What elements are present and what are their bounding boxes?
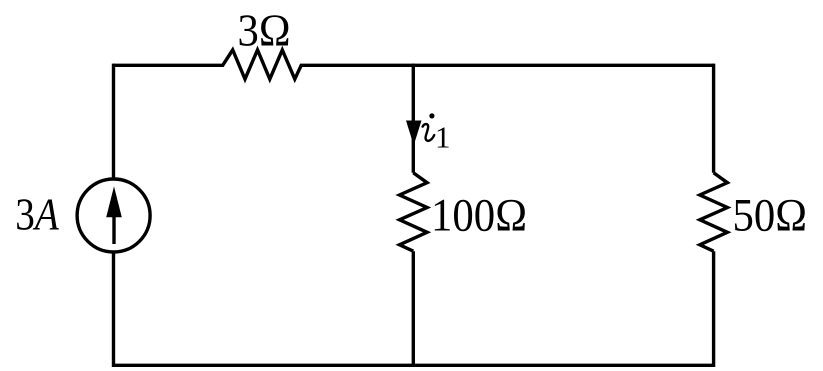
svg-text:50Ω: 50Ω <box>733 190 808 242</box>
svg-text:100Ω: 100Ω <box>431 190 527 242</box>
svg-text:1: 1 <box>435 120 451 155</box>
svg-text:3Ω: 3Ω <box>238 5 291 56</box>
svg-text:3A: 3A <box>15 189 59 240</box>
